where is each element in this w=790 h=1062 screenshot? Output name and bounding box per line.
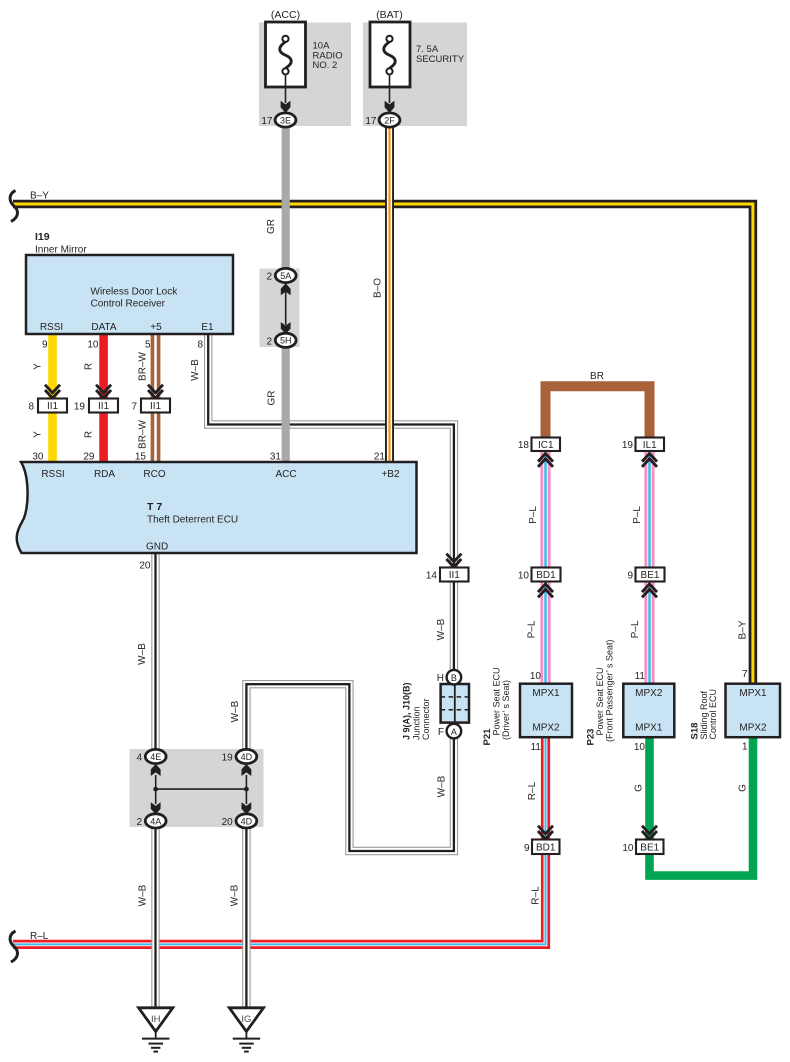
connector II1 (pin 7) [141,399,170,413]
svg-text:P–L: P–L [528,506,539,524]
label F (terminal A) [438,727,444,738]
ground IG [229,1008,263,1052]
junction terminal A [447,724,462,739]
svg-text:4D: 4D [241,816,253,826]
label 9 (BE1) [627,571,633,582]
arrow into connector 5A [281,283,291,295]
svg-text:9: 9 [627,571,633,582]
svg-text:R: R [84,363,95,370]
svg-text:R–L: R–L [531,886,542,905]
svg-text:17: 17 [365,116,377,127]
svg-text:MPX2: MPX2 [532,723,560,734]
arrow chevrons into II1 (pin 14) [446,554,461,567]
connector BE1 (pin 9) [636,568,665,582]
wire W-B from connector 4D pin 20 to ground IG [242,827,250,1010]
svg-text:4A: 4A [150,816,161,826]
arrow chevrons into II1 (pin 19) [96,385,111,398]
svg-text:F: F [438,727,444,738]
label R (lower) [84,431,95,438]
fuse F2 lead wire [389,75,391,104]
wire P-L between IL1 and BE1 [644,451,654,568]
label 19 (4D) [222,753,234,764]
arrow into connector 4D pin 20 [242,802,252,814]
label BR-W (lower) [138,420,149,449]
svg-text:2: 2 [136,817,142,828]
svg-text:Theft Deterrent ECU: Theft Deterrent ECU [147,515,238,526]
label Control ECU [708,689,718,740]
svg-text:21: 21 [374,451,386,462]
svg-text:29: 29 [83,451,95,462]
svg-text:31: 31 [270,451,282,462]
fuse F1 lead wire [285,75,287,104]
svg-text:2F: 2F [384,115,395,125]
svg-text:ACC: ACC [275,469,296,480]
svg-text:BR: BR [590,371,604,382]
label Junction [412,706,422,740]
ECU T7 Theft Deterrent box [17,462,417,553]
label W-B (E1 wire) [190,359,201,381]
label 8 (II1) [28,402,34,413]
wire P-L from BD1 to P21 MPX1 pin 10 [540,581,550,684]
svg-text:10: 10 [634,742,646,753]
svg-text:A: A [451,727,457,737]
arrow into connector 3E [281,101,291,113]
pin 10 (P21 MPX1) [530,671,542,682]
pin 1 (S18 MPX2) [742,742,748,753]
wire G from P23 MPX1 pin 10 to connector BE1 [645,737,654,840]
label Y (lower) [33,431,44,438]
svg-text:RCO: RCO [143,469,165,480]
label W-B (below 4D pin20) [230,884,241,906]
label P-L (IC1-BD1) [528,506,539,524]
svg-text:10: 10 [622,843,634,854]
svg-text:BR–W: BR–W [138,420,149,449]
fuse F2 box (7.5A SECURITY) [370,22,410,87]
svg-text:W–B: W–B [436,618,447,640]
label P-L (BD1 to P21) [527,620,538,638]
break symbol at R-L wire left end [10,931,17,962]
svg-text:19: 19 [622,440,634,451]
break symbol at B-Y wire left end [10,191,17,222]
label P23 [586,729,597,746]
svg-text:BE1: BE1 [641,570,660,581]
svg-text:B: B [451,673,457,683]
connector 4A [145,814,166,828]
pin 9 (I19 RSSI) [42,340,48,351]
svg-text:R–L: R–L [527,781,538,800]
svg-text:BD1: BD1 [536,842,556,853]
label 20 (4D) [222,817,234,828]
bus line between 4E/4A and 4D columns [153,787,249,792]
svg-text:B–O: B–O [372,278,383,298]
label Power Seat ECU (P23) [595,667,605,735]
pin 10 (I19 DATA) [87,340,99,351]
connector 5H [275,333,296,347]
label BR [590,371,604,382]
arrow chevrons below BD1 [538,584,553,597]
svg-text:15: 15 [135,451,147,462]
label P-L (IL1-BE1) [632,506,643,524]
label I19 [35,231,50,243]
label (Driver's Seat) [501,680,511,740]
wire R-L from connector BD1 down and across bottom to left break [13,854,546,944]
svg-text:GND: GND [146,542,168,553]
wire P-L between IC1 and BD1 [540,451,550,568]
wire B-O from fuse connector 2F to T7 +B2 pin 21 [385,127,394,463]
arrow chevrons below IC1 [538,454,553,467]
wire Y from I19 RSSI pin 9 to T7 RSSI pin 30 [48,334,57,462]
label W-B (GND wire) [137,643,148,665]
svg-text:19: 19 [222,753,234,764]
connector II1 (pin 19) [89,399,118,413]
label 18 (IC1) [518,440,530,451]
svg-text:Connector: Connector [421,698,431,740]
pin 5 (I19 +5) [145,340,151,351]
svg-text:Wireless Door Lock: Wireless Door Lock [91,287,179,298]
wire B-Y main (horizontal top, down right side to S18 pin 7) [13,204,753,684]
svg-text:1: 1 [742,742,748,753]
label B-Y (right wire) [738,620,749,639]
svg-text:BE1: BE1 [640,842,659,853]
svg-text:W–B: W–B [437,775,448,797]
pin 15 (T7 RCO) [135,451,147,462]
label Y (upper) [33,363,44,370]
svg-text:P–L: P–L [527,620,538,638]
label 17 (3E) [261,116,273,127]
label 19 (IL1) [622,440,634,451]
link line between 5A and 5H [285,292,287,325]
svg-text:10: 10 [87,340,99,351]
label G (right green wire) [738,784,749,792]
connector BD1 (pin 9) [532,840,560,855]
svg-text:R–L: R–L [30,931,49,942]
svg-text:19: 19 [74,402,86,413]
svg-text:I19: I19 [35,231,50,243]
svg-text:2: 2 [266,272,272,283]
svg-text:10: 10 [530,671,542,682]
svg-text:G: G [738,784,749,792]
svg-text:SECURITY: SECURITY [416,54,465,65]
svg-text:IC1: IC1 [538,440,554,451]
connector II1 (pin 8) [38,399,67,413]
wire R from I19 DATA pin 10 to T7 RDA pin 29 [99,334,108,462]
link line 4E-4A [155,775,157,804]
arrow into connector 4E [151,764,161,776]
svg-text:+B2: +B2 [381,469,400,480]
label P21 [482,728,493,746]
pin 8 (I19 E1) [197,340,203,351]
connector IL1 [636,438,665,452]
svg-text:8: 8 [28,402,34,413]
svg-text:4: 4 [136,753,142,764]
svg-text:B–Y: B–Y [30,191,49,202]
svg-text:17: 17 [261,116,273,127]
svg-text:20: 20 [139,561,151,572]
arrow chevrons below IL1 [642,454,657,467]
svg-text:(Front Passenger’ s Seat): (Front Passenger’ s Seat) [604,639,614,742]
connector panel 4E/4A/4D [130,749,264,827]
svg-text:10: 10 [518,571,530,582]
svg-text:Control ECU: Control ECU [708,689,718,740]
label 9 (BD1) [524,843,530,854]
svg-text:GR: GR [266,219,277,234]
svg-text:4D: 4D [241,752,253,762]
arrow into connector 4A [151,802,161,814]
svg-text:7: 7 [742,669,748,680]
fuse F2 element [384,36,396,75]
svg-text:BR–W: BR–W [138,352,149,381]
wire G from connector BE1 across to S18 MPX2 pin 1 [650,737,754,876]
connector BE1 (pin 10) [636,840,664,855]
svg-text:H: H [437,673,444,684]
svg-text:Y: Y [33,363,44,370]
svg-text:W–B: W–B [137,643,148,665]
label W-B (below 4A) [138,884,149,906]
svg-text:11: 11 [635,671,646,682]
connector 2F [379,113,400,127]
connector 5A [275,268,296,282]
svg-text:MPX1: MPX1 [532,688,560,699]
pin 7 (S18 MPX1) [742,669,748,680]
arrow chevrons into II1 (pin 7) [148,385,163,398]
svg-text:Inner Mirror: Inner Mirror [35,245,87,256]
label 7 (II1) [131,402,137,413]
junction connector J9(A)/J10(B) grid [441,684,469,723]
svg-text:RSSI: RSSI [41,469,64,480]
svg-text:NO. 2: NO. 2 [313,60,338,71]
svg-text:9: 9 [524,843,530,854]
label (ACC) [271,9,300,21]
label R (upper) [84,363,95,370]
connector 4D (pin 19) [236,749,257,763]
svg-text:5: 5 [145,340,151,351]
connector 3E [275,113,296,127]
svg-text:W–B: W–B [230,700,241,722]
label Sliding Roof [699,690,709,739]
ECU P23 Power Seat (front passenger) box [623,684,674,738]
pin 10 (P23 MPX1) [634,742,646,753]
svg-text:II1: II1 [98,401,110,412]
fuse block panel (ACC radio fuse) [259,23,351,127]
pin 31 (T7 ACC) [270,451,282,462]
label W-B (II1 pin14 wire) [436,618,447,640]
link line 4D-4D [245,775,247,804]
wire W-B from T7 GND pin 20 to connector 4E [151,553,159,751]
svg-text:MPX2: MPX2 [635,688,663,699]
svg-text:5H: 5H [280,336,292,346]
label 17 (2F) [365,116,377,127]
junction terminal B [447,670,462,685]
svg-text:MPX1: MPX1 [739,688,767,699]
label 2 (4A) [136,817,142,828]
pin 30 (T7 RSSI) [32,451,44,462]
label B-Y (top wire) [30,191,49,202]
svg-text:IG: IG [241,1014,251,1025]
label W-B (above 4D pin19) [230,700,241,722]
wire GR from fuse connector 3E to connector 5A [282,127,290,270]
svg-text:14: 14 [426,571,438,582]
ECU P21 Power Seat (driver) box [520,684,572,738]
label GR (lower) [267,391,278,406]
label 4 (4E) [136,753,142,764]
wire P-L from BE1 to P23 MPX2 pin 11 [644,581,654,684]
connector 4D (pin 20) [236,814,257,828]
label R-L (P21 to BD1) [527,781,538,800]
arrow chevrons into II1 (pin 8) [45,385,60,398]
arrow into connector 5H [281,322,291,334]
svg-text:MPX2: MPX2 [739,723,767,734]
pin 11 (P21 MPX2) [531,742,542,753]
wire BR loop from IC1 to IL1 [546,386,650,438]
svg-text:5A: 5A [280,271,291,281]
ECU S18 Sliding Roof Control box [726,684,781,738]
svg-text:RSSI: RSSI [40,322,63,333]
label 10 (BE1) [622,843,634,854]
svg-text:Y: Y [33,431,44,438]
svg-text:T 7: T 7 [147,501,162,513]
label R-L (bottom wire) [30,931,49,942]
wire R-L from P21 MPX2 pin 11 to connector BD1 [541,737,550,840]
ground IH [139,1008,173,1052]
label B-O [372,278,383,298]
svg-text:(Driver’ s Seat): (Driver’ s Seat) [501,680,511,740]
fuse F1 box (10A RADIO NO.2) [266,22,306,87]
connector II1 (pin 14) [440,568,469,582]
svg-text:II1: II1 [449,570,461,581]
svg-text:IL1: IL1 [643,440,657,451]
label 2 (5A) [266,272,272,283]
connector 4E [145,749,166,763]
svg-text:E1: E1 [201,322,214,333]
fuse F1 element [280,36,292,75]
wire W-B from connector 4A to ground IH [151,827,159,1010]
connector BD1 (pin 10) [532,568,561,582]
pin 20 (T7 GND) [139,561,151,572]
svg-text:RDA: RDA [94,469,115,480]
svg-text:G: G [634,784,645,792]
svg-text:8: 8 [197,340,203,351]
svg-text:W–B: W–B [190,359,201,381]
pin 11 (P23 MPX2) [635,671,646,682]
svg-text:30: 30 [32,451,44,462]
connector panel 5A/5H [260,269,300,348]
svg-text:GR: GR [267,391,278,406]
label Inner Mirror [35,245,87,256]
svg-text:P–L: P–L [632,506,643,524]
label H (terminal B) [437,673,444,684]
svg-text:11: 11 [531,742,542,753]
svg-text:+5: +5 [150,322,162,333]
arrow into connector 2F [385,101,395,113]
label BR-W (upper) [138,352,149,381]
svg-text:18: 18 [518,440,530,451]
svg-text:(BAT): (BAT) [376,9,403,21]
svg-text:W–B: W–B [230,884,241,906]
svg-text:2: 2 [266,336,272,347]
wire GR from connector 5H to T7 ACC pin 31 [282,347,290,463]
label GR (upper) [266,219,277,234]
svg-text:II1: II1 [150,401,162,412]
svg-text:Junction: Junction [412,706,422,740]
svg-text:II1: II1 [47,401,59,412]
connector IC1 [532,438,561,452]
label 7.5A SECURITY [416,44,465,65]
label 10A RADIO NO. 2 [313,41,343,72]
label (BAT) [376,9,403,21]
label P-L (BE1 to P23) [630,620,641,638]
label (Front Passenger's Seat) [604,639,614,742]
label 14 (II1) [426,571,438,582]
svg-text:Control Receiver: Control Receiver [91,299,166,310]
svg-text:MPX1: MPX1 [635,723,663,734]
wire W-B from I19 E1 to junction connector B [208,334,454,671]
svg-text:J 9(A), J10(B): J 9(A), J10(B) [402,682,412,740]
arrow into connector 4D pin 19 [242,764,252,776]
ECU I19 Wireless Door Lock Control Receiver box [26,255,233,334]
wire W-B from junction connector A to connector 4D pin 19 [246,684,454,851]
arrow chevrons below BE1 [642,584,657,597]
wire BR-W from I19 +5 pin 5 to T7 RCO pin 15 [151,334,161,462]
svg-text:DATA: DATA [91,322,117,333]
pin 21 (T7 +B2) [374,451,386,462]
svg-text:4E: 4E [150,752,161,762]
svg-text:3E: 3E [280,115,291,125]
label W-B (below junction A) [437,775,448,797]
svg-text:B–Y: B–Y [738,620,749,639]
label 2 (5H) [266,336,272,347]
svg-text:20: 20 [222,817,234,828]
svg-text:IH: IH [151,1014,161,1025]
label Power Seat ECU (P21) [492,667,502,735]
pin 29 (T7 RDA) [83,451,95,462]
svg-text:R: R [84,431,95,438]
label 10 (BD1) [518,571,530,582]
arrow chevrons into BE1 (pin 10) [642,826,657,839]
label S18 [690,723,701,740]
label Connector [421,698,431,740]
label R-L (BD1 down) [531,886,542,905]
svg-text:P–L: P–L [630,620,641,638]
label G (left green wire) [634,784,645,792]
fuse block panel (BAT security fuse) [363,23,467,127]
svg-text:BD1: BD1 [536,570,556,581]
arrow chevrons into BD1 (pin 9) [538,826,553,839]
svg-text:W–B: W–B [138,884,149,906]
svg-text:9: 9 [42,340,48,351]
label J 9(A), J10(B) [402,682,412,740]
svg-text:7: 7 [131,402,137,413]
svg-text:(ACC): (ACC) [271,9,300,21]
label 19 (II1) [74,402,86,413]
